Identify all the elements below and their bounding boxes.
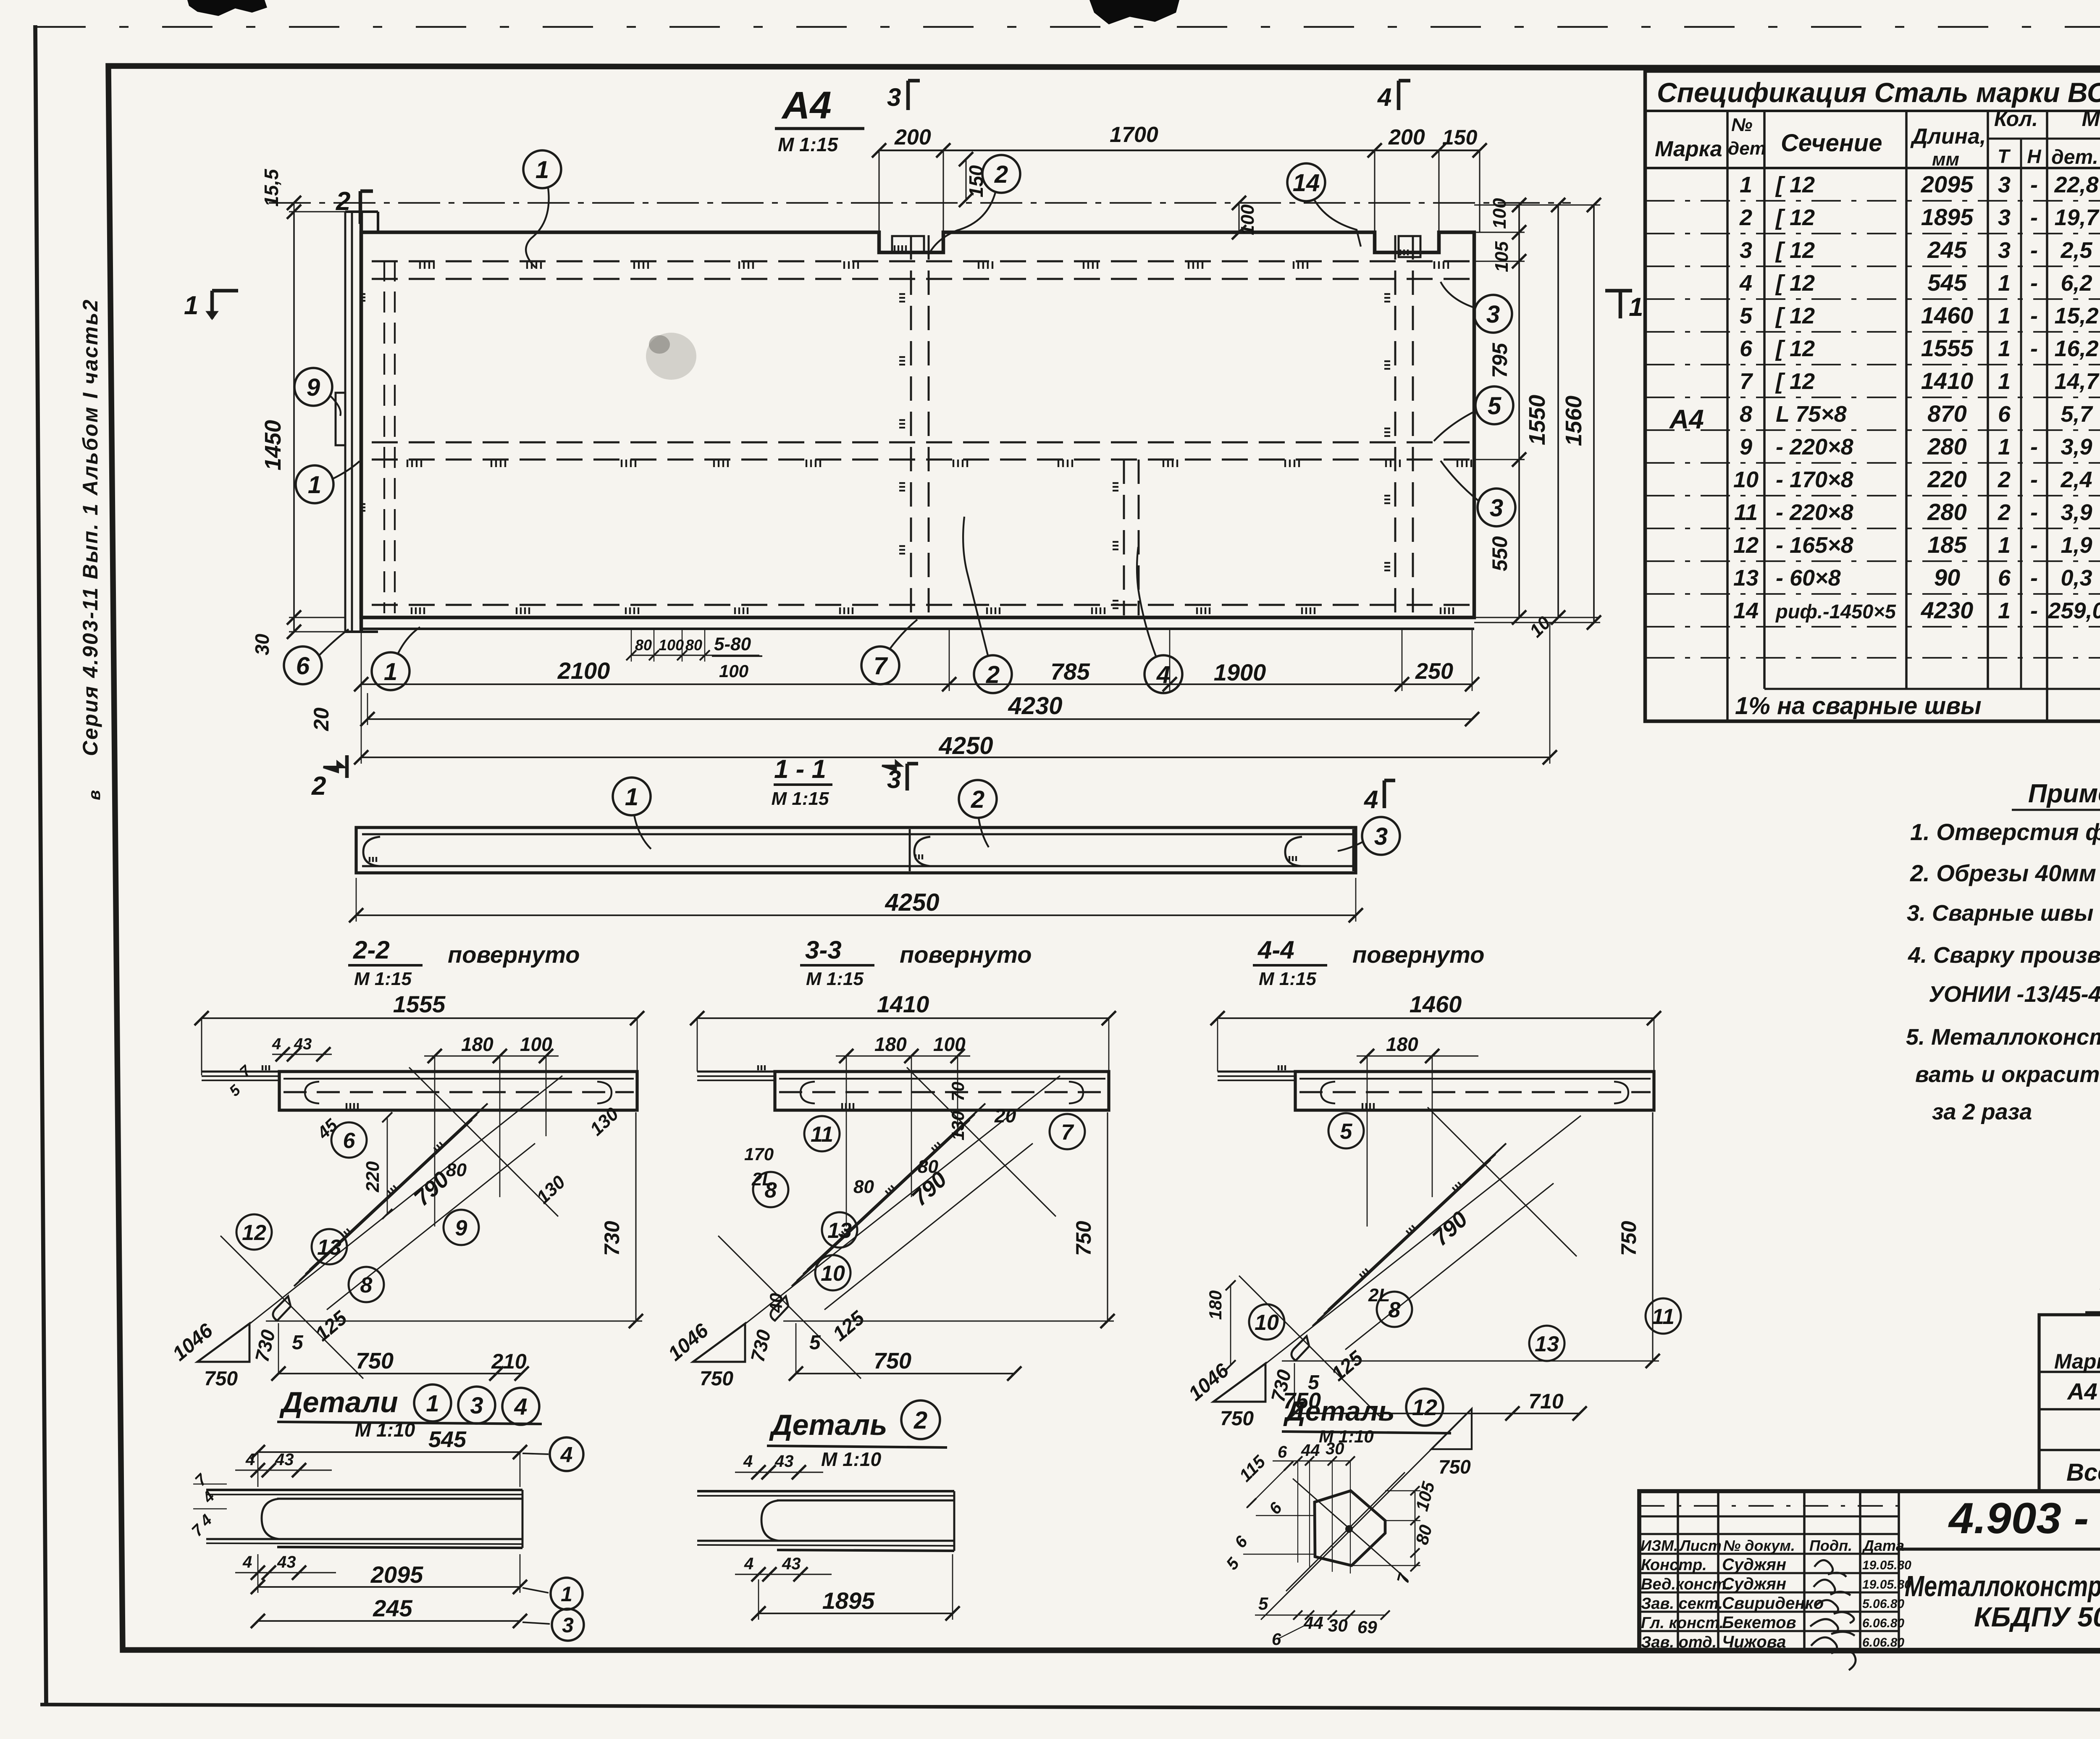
svg-text:2095: 2095 xyxy=(1921,171,1974,197)
svg-text:М 1:15: М 1:15 xyxy=(772,788,829,809)
svg-text:1: 1 xyxy=(1998,434,2011,460)
weld tick clusters middle line xyxy=(407,460,421,467)
bar left end cap xyxy=(363,837,380,866)
smudge on plan view xyxy=(646,333,696,380)
svg-text:- 170×8: - 170×8 xyxy=(1776,467,1853,492)
detail 12 top dims xyxy=(1273,1461,1350,1462)
pos 4 bottom xyxy=(1144,655,1182,693)
svg-text:30: 30 xyxy=(251,633,273,655)
svg-text:5: 5 xyxy=(1740,303,1753,328)
svg-text:14: 14 xyxy=(1733,598,1759,623)
svg-text:200: 200 xyxy=(1388,125,1425,150)
svg-text:3,9: 3,9 xyxy=(2061,434,2092,460)
svg-text:80: 80 xyxy=(918,1156,938,1177)
pos 7 bottom xyxy=(861,646,899,684)
section 4-4 left vertical dim 180 xyxy=(1230,1285,1231,1365)
bottom small dims 80 100 80 xyxy=(631,654,759,656)
bar right end cap xyxy=(1285,837,1302,866)
svg-text:43: 43 xyxy=(774,1452,794,1471)
section 4-4 triangle xyxy=(1213,1363,1265,1402)
svg-text:785: 785 xyxy=(1050,658,1090,685)
svg-text:М 1:10: М 1:10 xyxy=(355,1419,415,1441)
svg-text:3,9: 3,9 xyxy=(2061,500,2092,525)
svg-text:1895: 1895 xyxy=(1921,204,1974,230)
svg-text:-: - xyxy=(2030,598,2038,623)
svg-text:3: 3 xyxy=(887,83,901,111)
svg-text:2095: 2095 xyxy=(370,1561,423,1588)
svg-text:-: - xyxy=(2030,533,2038,558)
svg-text:- 165×8: - 165×8 xyxy=(1776,533,1853,558)
svg-text:220: 220 xyxy=(362,1161,383,1193)
specification table outer xyxy=(1645,71,2100,721)
svg-text:43: 43 xyxy=(277,1553,296,1571)
svg-text:185: 185 xyxy=(1927,531,1967,558)
right dim extension lines xyxy=(1474,204,1600,205)
svg-text:245: 245 xyxy=(373,1595,412,1621)
svg-text:1555: 1555 xyxy=(393,991,446,1017)
svg-text:8: 8 xyxy=(1740,402,1752,427)
svg-text:2: 2 xyxy=(994,161,1008,188)
svg-text:5: 5 xyxy=(1488,392,1501,420)
detail 12 bottom dims xyxy=(1255,1615,1386,1616)
svg-text:200: 200 xyxy=(894,125,931,150)
svg-text:1,9: 1,9 xyxy=(2061,533,2092,558)
scan artifact blob top-left xyxy=(187,0,267,16)
middle channel hidden lines xyxy=(372,441,1470,444)
detail 134 dim 545 xyxy=(258,1451,520,1453)
svg-text:М 1:15: М 1:15 xyxy=(1259,969,1316,989)
detail 2 channel profile xyxy=(697,1490,954,1492)
title block sign table verticals xyxy=(1677,1491,1679,1651)
svg-text:7: 7 xyxy=(1740,369,1753,394)
svg-text:А4: А4 xyxy=(781,84,832,127)
svg-text:УОНИИ -13/45-4,0-1 ГОСТ 9466·7: УОНИИ -13/45-4,0-1 ГОСТ 9466·75 xyxy=(1929,982,2100,1007)
svg-text:4-4: 4-4 xyxy=(1257,936,1294,964)
svg-text:М 1:15: М 1:15 xyxy=(354,969,412,989)
svg-text:130: 130 xyxy=(948,1111,968,1140)
svg-text:4: 4 xyxy=(514,1393,527,1420)
svg-text:4: 4 xyxy=(1156,661,1170,688)
svg-text:30: 30 xyxy=(1328,1616,1348,1635)
svg-text:[ 12: [ 12 xyxy=(1775,303,1815,328)
svg-text:-: - xyxy=(2030,467,2038,492)
dim chain top xyxy=(879,150,1480,151)
svg-text:1: 1 xyxy=(1998,598,2011,623)
svg-text:3: 3 xyxy=(1740,238,1752,263)
svg-text:5: 5 xyxy=(1308,1371,1320,1394)
svg-text:[ 12: [ 12 xyxy=(1775,369,1815,394)
pos 14 top xyxy=(1287,163,1325,201)
spec table rows xyxy=(1645,200,2100,202)
svg-text:1560: 1560 xyxy=(1561,396,1586,446)
svg-text:Зав. сект.: Зав. сект. xyxy=(1641,1595,1723,1613)
svg-text:12: 12 xyxy=(1412,1395,1437,1420)
section 2-2 dim 220 vertical xyxy=(387,1117,388,1214)
svg-text:69: 69 xyxy=(1357,1617,1377,1637)
item 9 plate left xyxy=(336,393,345,445)
svg-text:- 60×8: - 60×8 xyxy=(1776,565,1841,591)
section 3-3 top dim xyxy=(697,1017,1109,1019)
svg-text:М 1:15: М 1:15 xyxy=(806,969,864,989)
svg-text:-: - xyxy=(2030,172,2038,197)
svg-text:4: 4 xyxy=(560,1443,573,1467)
svg-text:-: - xyxy=(2030,303,2038,328)
svg-text:дет.: дет. xyxy=(2051,146,2098,168)
svg-text:2L: 2L xyxy=(1368,1285,1390,1306)
svg-text:2,5: 2,5 xyxy=(2060,238,2092,263)
section 4-4 vertical dim right xyxy=(1652,1112,1653,1361)
dim 4230 xyxy=(367,718,1472,720)
svg-text:100: 100 xyxy=(659,636,684,654)
top channel hidden lines xyxy=(372,260,1470,263)
svg-text:1700: 1700 xyxy=(1110,123,1158,147)
section 2-2 circles xyxy=(331,1122,367,1158)
spec empty rows xyxy=(1645,657,2100,659)
svg-text:2: 2 xyxy=(986,661,1000,688)
svg-text:16,2: 16,2 xyxy=(2054,336,2098,361)
svg-text:250: 250 xyxy=(1415,659,1453,684)
svg-text:1 - 1: 1 - 1 xyxy=(774,755,826,784)
svg-text:2: 2 xyxy=(971,786,984,813)
svg-text:6: 6 xyxy=(1998,565,2011,591)
svg-text:5: 5 xyxy=(1258,1594,1268,1613)
svg-text:40: 40 xyxy=(766,1293,786,1313)
section 3-3 diagonal brace xyxy=(792,1120,970,1286)
svg-text:245: 245 xyxy=(1927,236,1967,263)
svg-text:1460: 1460 xyxy=(1921,302,1974,328)
section 4-4 top small dim ticks xyxy=(1357,1055,1478,1056)
section 2-2 diagonal brace xyxy=(294,1120,472,1286)
notch 1 channel end xyxy=(892,236,924,252)
svg-text:11: 11 xyxy=(1652,1305,1675,1329)
section 3-3 extension verticals xyxy=(846,1056,847,1227)
svg-text:2,4: 2,4 xyxy=(2060,467,2092,492)
svg-text:Марка: Марка xyxy=(1655,137,1722,161)
svg-text:Спецификация Сталь марки ВСт-3: Спецификация Сталь марки ВСт-3кп2ГОСТ 38… xyxy=(1657,77,2100,108)
svg-text:12: 12 xyxy=(242,1221,266,1245)
section mark 1 right xyxy=(1605,291,1632,318)
svg-text:8: 8 xyxy=(1389,1298,1401,1322)
pos 1 bottom xyxy=(372,652,409,690)
svg-text:3: 3 xyxy=(470,1392,483,1419)
svg-text:4: 4 xyxy=(1364,785,1378,814)
svg-text:мм: мм xyxy=(1932,149,1959,170)
svg-text:2: 2 xyxy=(1998,467,2011,492)
svg-text:1: 1 xyxy=(384,658,397,686)
svg-text:44: 44 xyxy=(1301,1441,1320,1460)
svg-text:15,5: 15,5 xyxy=(260,168,282,207)
section mark 2 bottom xyxy=(323,762,344,772)
svg-text:19,7: 19,7 xyxy=(2054,205,2100,230)
svg-text:5. Металлоконструкции огрунто-: 5. Металлоконструкции огрунто- xyxy=(1906,1024,2100,1050)
svg-text:Длина,: Длина, xyxy=(1910,124,1986,149)
svg-text:20: 20 xyxy=(994,1105,1016,1127)
svg-text:№ докум.: № докум. xyxy=(1723,1537,1795,1554)
svg-text:6.06.80: 6.06.80 xyxy=(1862,1616,1904,1630)
svg-text:4: 4 xyxy=(272,1035,281,1053)
plate bottom lower edge xyxy=(362,628,1474,630)
svg-text:3: 3 xyxy=(1998,238,2011,263)
svg-text:750: 750 xyxy=(1072,1221,1095,1256)
svg-text:5.06.80: 5.06.80 xyxy=(1862,1597,1904,1611)
svg-text:1: 1 xyxy=(1740,172,1752,197)
notch 2 channel end xyxy=(1399,236,1420,257)
svg-text:3: 3 xyxy=(1486,301,1500,328)
vertical channel right hidden xyxy=(1394,235,1396,615)
sheet outer border top (dash-dot) xyxy=(35,26,2100,28)
svg-text:4: 4 xyxy=(245,1450,255,1469)
svg-text:Т: Т xyxy=(1998,145,2011,167)
svg-text:750: 750 xyxy=(1438,1456,1471,1478)
svg-text:180: 180 xyxy=(1386,1033,1418,1055)
svg-text:2100: 2100 xyxy=(557,657,610,684)
detail 12 right dims xyxy=(1415,1491,1416,1567)
svg-text:Всего:: Всего: xyxy=(2066,1459,2100,1486)
svg-text:80: 80 xyxy=(853,1177,874,1197)
svg-text:750: 750 xyxy=(1617,1221,1641,1256)
spec table header lines xyxy=(1645,167,2100,169)
section 3-3 top small dim ticks xyxy=(836,1055,970,1056)
section 4-4 circles xyxy=(1328,1113,1364,1148)
svg-text:13: 13 xyxy=(317,1235,341,1260)
svg-text:22,8: 22,8 xyxy=(2054,172,2098,197)
svg-text:4250: 4250 xyxy=(938,732,993,759)
svg-text:4.903 - 11 - В. 1 - 10: 4.903 - 11 - В. 1 - 10 xyxy=(1948,1494,2100,1543)
svg-text:80: 80 xyxy=(685,636,702,654)
svg-text:1: 1 xyxy=(1998,336,2011,361)
svg-text:4: 4 xyxy=(743,1452,753,1471)
svg-text:-: - xyxy=(2030,238,2038,263)
svg-text:750: 750 xyxy=(204,1368,238,1390)
svg-text:1895: 1895 xyxy=(822,1587,875,1614)
svg-text:Деталь: Деталь xyxy=(769,1408,887,1441)
svg-text:4: 4 xyxy=(242,1553,252,1571)
svg-text:Гл. конст.: Гл. конст. xyxy=(1641,1614,1724,1632)
svg-text:1550: 1550 xyxy=(1525,395,1550,445)
svg-text:за 2 раза: за 2 раза xyxy=(1932,1099,2032,1124)
svg-text:280: 280 xyxy=(1927,433,1966,460)
svg-text:9: 9 xyxy=(1740,434,1752,460)
svg-text:3: 3 xyxy=(1374,823,1388,850)
svg-text:2-2: 2-2 xyxy=(353,936,390,964)
section 3-3 channel bar xyxy=(775,1072,1109,1110)
pos 9 left xyxy=(294,368,332,406)
section 3-3 construction diagonals xyxy=(824,1143,1033,1310)
svg-text:Лист: Лист xyxy=(1679,1537,1722,1554)
svg-text:- 220×8: - 220×8 xyxy=(1776,434,1853,460)
svg-text:1555: 1555 xyxy=(1921,335,1974,361)
svg-text:750: 750 xyxy=(356,1348,394,1374)
section 3-3 triangle xyxy=(693,1324,745,1362)
svg-text:750: 750 xyxy=(874,1348,911,1374)
section 3-3 vertical dim right xyxy=(1107,1112,1108,1321)
svg-text:-: - xyxy=(2030,500,2038,525)
svg-text:70: 70 xyxy=(948,1082,968,1101)
svg-text:7: 7 xyxy=(874,652,888,680)
svg-text:80: 80 xyxy=(446,1160,467,1180)
svg-text:259,0: 259,0 xyxy=(2047,598,2100,623)
vertical channel 2 hidden (section3 cut) xyxy=(910,235,912,615)
svg-text:-: - xyxy=(2030,336,2038,361)
bar mid seam xyxy=(909,829,911,871)
svg-text:1900: 1900 xyxy=(1214,659,1266,686)
svg-text:А4: А4 xyxy=(2066,1378,2097,1405)
svg-text:Свириденко: Свириденко xyxy=(1722,1594,1824,1613)
svg-text:730: 730 xyxy=(600,1221,624,1256)
svg-text:3: 3 xyxy=(1998,172,2011,197)
svg-text:3. Сварные швы h=6мм , кроме: 3. Сварные швы h=6мм , кроме оговорен- xyxy=(1907,901,2100,926)
detail 12 long slope line xyxy=(1261,1449,1431,1620)
weld tick clusters bottom line xyxy=(412,607,424,614)
svg-text:6: 6 xyxy=(1998,402,2011,427)
vertical channel 4 hidden partial xyxy=(1123,460,1125,615)
svg-text:545: 545 xyxy=(1927,269,1967,296)
svg-text:дет: дет xyxy=(1728,138,1766,159)
svg-text:6: 6 xyxy=(1278,1443,1287,1461)
detail 2 dim 1895 xyxy=(759,1613,953,1614)
svg-text:6: 6 xyxy=(296,652,310,680)
section 3-3 tail plate xyxy=(697,1071,775,1073)
svg-text:повернуто: повернуто xyxy=(448,941,580,968)
svg-text:2. Обрезы 40мм: 2. Обрезы 40мм xyxy=(1910,860,2096,886)
svg-text:Дата: Дата xyxy=(1862,1537,1904,1554)
svg-text:2: 2 xyxy=(311,772,326,801)
svg-text:1: 1 xyxy=(184,291,198,320)
svg-text:повернуто: повернуто xyxy=(1352,941,1484,968)
svg-text:750: 750 xyxy=(1220,1408,1254,1430)
svg-text:Чижова: Чижова xyxy=(1722,1633,1786,1651)
svg-text:[ 12: [ 12 xyxy=(1775,172,1815,197)
svg-text:150: 150 xyxy=(1442,126,1478,149)
svg-text:3: 3 xyxy=(1998,205,2011,230)
section 4-4 bottom dim xyxy=(1294,1413,1512,1414)
pos 2 top xyxy=(982,155,1020,193)
pos 1 left xyxy=(296,465,333,503)
svg-text:1% на сварные швы: 1% на сварные швы xyxy=(1735,692,1982,720)
svg-text:11: 11 xyxy=(1734,500,1758,525)
svg-text:20: 20 xyxy=(310,707,333,731)
svg-text:2: 2 xyxy=(1739,205,1752,230)
svg-text:100: 100 xyxy=(520,1033,552,1055)
svg-text:5: 5 xyxy=(1340,1119,1353,1144)
section 2-2 top dim xyxy=(202,1017,637,1019)
svg-text:750: 750 xyxy=(700,1368,733,1390)
svg-text:Масса , кг: Масса , кг xyxy=(2082,107,2100,131)
svg-text:-: - xyxy=(2030,565,2038,591)
svg-text:12: 12 xyxy=(1733,533,1759,558)
svg-text:Н: Н xyxy=(2027,145,2041,167)
section 2-2 channel bar xyxy=(279,1072,637,1110)
right small dim line xyxy=(1518,205,1520,617)
svg-text:10: 10 xyxy=(1255,1311,1279,1335)
svg-text:80: 80 xyxy=(635,636,652,654)
sheet outer border bottom xyxy=(40,1705,2100,1710)
svg-text:220: 220 xyxy=(1927,466,1966,492)
svg-text:Суджян: Суджян xyxy=(1722,1555,1786,1574)
section 2-2 top small dim ticks xyxy=(272,1053,332,1055)
section mark 3 near 1-1 label arrow xyxy=(882,761,901,770)
dim 1450 left xyxy=(293,212,295,632)
svg-text:180: 180 xyxy=(874,1033,907,1055)
svg-text:14: 14 xyxy=(1293,169,1320,197)
detail 12 centre lines xyxy=(1286,1472,1405,1591)
svg-text:L 75×8: L 75×8 xyxy=(1776,402,1847,427)
svg-text:90: 90 xyxy=(1934,564,1960,591)
svg-text:Примечания:: Примечания: xyxy=(2028,779,2100,808)
pos 3 right lower xyxy=(1478,489,1515,526)
dim 1550 xyxy=(1557,205,1559,617)
svg-text:1: 1 xyxy=(1998,303,2011,328)
svg-text:Кол.: Кол. xyxy=(1994,107,2038,131)
dim 4250 under bar xyxy=(356,914,1356,916)
svg-text:550: 550 xyxy=(1488,536,1512,571)
svg-text:870: 870 xyxy=(1927,400,1966,427)
detail 12 slope triangle 750 xyxy=(1431,1409,1472,1449)
svg-text:Детали: Детали xyxy=(279,1386,398,1419)
svg-text:1410: 1410 xyxy=(877,991,929,1017)
svg-text:13: 13 xyxy=(1733,565,1759,591)
pos 3 on 1-1 xyxy=(1362,817,1400,855)
pos 2 bottom xyxy=(974,655,1012,693)
detail 134 dim 245 xyxy=(258,1620,520,1622)
svg-text:Бекетов: Бекетов xyxy=(1722,1613,1796,1632)
weld tick clusters top line xyxy=(420,261,434,269)
svg-text:545: 545 xyxy=(428,1427,467,1452)
pos 2 on 1-1 xyxy=(959,780,997,818)
title block outer xyxy=(1639,1491,2100,1651)
left upturned channel xyxy=(344,212,346,632)
svg-text:105: 105 xyxy=(1491,241,1512,272)
section 3-3 bottom dim xyxy=(796,1373,1014,1374)
svg-text:710: 710 xyxy=(1528,1390,1564,1413)
svg-text:[ 12: [ 12 xyxy=(1775,271,1815,296)
svg-text:2: 2 xyxy=(1998,500,2011,525)
svg-text:210: 210 xyxy=(491,1350,527,1373)
svg-text:4: 4 xyxy=(1377,83,1391,111)
section 2-2 bottom dim xyxy=(278,1373,496,1374)
svg-text:2: 2 xyxy=(336,187,350,216)
section 4-4 channel bar xyxy=(1295,1072,1654,1110)
svg-text:[ 12: [ 12 xyxy=(1775,336,1815,361)
svg-text:Зав. отд.: Зав. отд. xyxy=(1641,1634,1717,1651)
signatures xyxy=(1814,1560,1846,1577)
svg-text:ИЗМ.: ИЗМ. xyxy=(1641,1537,1678,1554)
svg-text:1: 1 xyxy=(1998,369,2011,394)
svg-text:повернуто: повернуто xyxy=(900,941,1032,968)
svg-text:19.05.80: 19.05.80 xyxy=(1862,1578,1911,1592)
svg-text:6: 6 xyxy=(1740,336,1753,361)
svg-text:А4: А4 xyxy=(1669,404,1704,434)
svg-text:795: 795 xyxy=(1488,342,1512,378)
plate outline (item 14) xyxy=(361,232,1474,617)
title block sign table horizontals xyxy=(1639,1505,1899,1507)
svg-text:30: 30 xyxy=(1326,1440,1344,1458)
detail 134 small dims bottom xyxy=(235,1572,336,1573)
svg-text:1. Отверстия ф19мм: 1. Отверстия ф19мм xyxy=(1910,819,2100,845)
svg-text:1: 1 xyxy=(561,1582,572,1606)
svg-text:6: 6 xyxy=(1272,1630,1281,1649)
svg-text:1: 1 xyxy=(625,783,638,811)
svg-text:6.06.80: 6.06.80 xyxy=(1862,1636,1904,1650)
svg-text:100: 100 xyxy=(1489,198,1510,229)
section 2-2 construction diagonals xyxy=(327,1143,535,1310)
section 4-4 top dim xyxy=(1218,1017,1654,1019)
svg-text:9: 9 xyxy=(307,374,320,401)
section 2-2 vertical dim right xyxy=(635,1112,636,1321)
svg-text:-: - xyxy=(2030,205,2038,230)
detail 134 dim 2095 xyxy=(258,1586,520,1588)
svg-text:13: 13 xyxy=(1535,1332,1559,1356)
